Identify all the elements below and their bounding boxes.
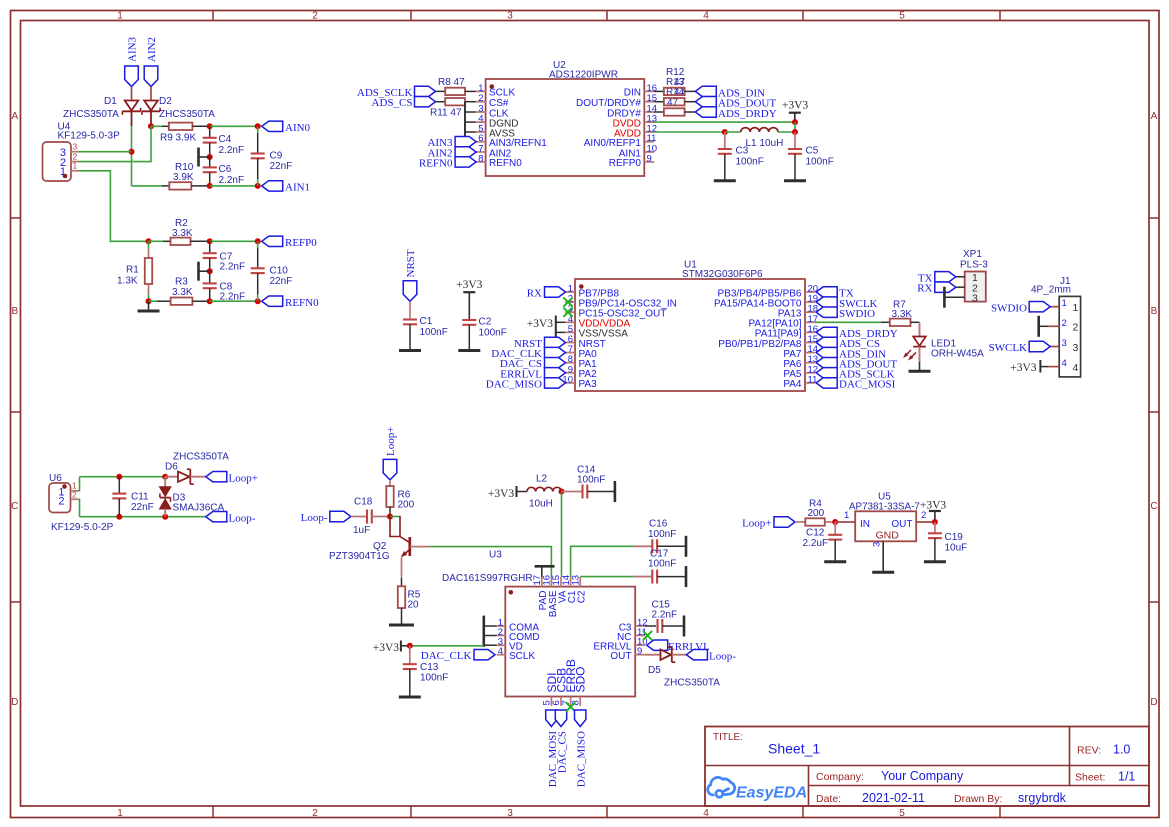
svg-text:AIN1: AIN1 — [285, 182, 310, 194]
junction L2 C14 — [559, 489, 565, 495]
junction Q2 base node — [387, 514, 393, 520]
wire loop top rail — [80, 476, 166, 478]
net flag Loop+ at D6 — [206, 472, 258, 485]
resistor R2 3.3K — [146, 218, 210, 245]
svg-text:3: 3 — [972, 293, 978, 305]
net flag ADS_CS — [372, 97, 436, 110]
net flag SWDIO at U1 — [816, 307, 875, 320]
svg-text:ZHCS350TA: ZHCS350TA — [173, 452, 229, 463]
no-connect U3 ERRB — [566, 702, 575, 711]
svg-text:4: 4 — [1073, 362, 1079, 374]
capacitor C5 100nF — [784, 132, 834, 181]
svg-text:C1: C1 — [420, 316, 433, 327]
svg-text:C13: C13 — [420, 662, 439, 673]
wire VA pin down — [561, 492, 563, 578]
svg-text:4P_2mm: 4P_2mm — [1031, 285, 1071, 296]
svg-text:B: B — [11, 306, 18, 317]
svg-text:C19: C19 — [945, 532, 964, 543]
svg-text:1: 1 — [1073, 302, 1079, 314]
capacitor C15 2.2nF — [645, 600, 684, 637]
op-amp U2 ADS1220IPWR body — [486, 60, 645, 176]
svg-text:C18: C18 — [354, 497, 373, 508]
svg-text:D: D — [1150, 697, 1157, 708]
net flag Loop+ at R4 — [742, 517, 795, 530]
svg-text:SWDIO: SWDIO — [991, 302, 1027, 314]
svg-text:Loop+: Loop+ — [229, 473, 258, 485]
net flag DAC_MISO at U1 — [486, 378, 566, 391]
net flag Loop- at U6 — [206, 512, 256, 525]
junction C19 — [932, 519, 938, 525]
net flag DAC_CS vertical — [555, 710, 568, 773]
svg-text:R1: R1 — [126, 265, 139, 276]
svg-text:1: 1 — [844, 510, 849, 521]
net flag Loop- at D5 — [686, 650, 736, 663]
resistor R10 3.9K — [132, 162, 210, 190]
ground at XP1 pin3 — [943, 287, 946, 308]
svg-text:200: 200 — [398, 500, 415, 511]
svg-text:Loop-: Loop- — [301, 512, 328, 524]
svg-text:1/1: 1/1 — [1118, 770, 1135, 784]
wire D2 anode down — [150, 112, 152, 126]
net flag ADS_DOUT — [695, 97, 776, 110]
diode D5 ZHCS350TA — [645, 647, 720, 688]
svg-text:DAC_CS: DAC_CS — [556, 731, 568, 773]
svg-text:20: 20 — [408, 600, 420, 611]
svg-text:11: 11 — [808, 374, 818, 385]
wire C1 pin to C16 — [571, 546, 634, 577]
ground at U3 PAD — [535, 566, 555, 577]
capacitor C19 10uF — [924, 522, 967, 562]
title block — [705, 727, 1149, 807]
net flag DAC_MISO vertical — [575, 710, 588, 787]
svg-text:Company:: Company: — [816, 771, 864, 783]
svg-text:2.2nF: 2.2nF — [652, 610, 678, 621]
svg-text:22nF: 22nF — [131, 502, 154, 513]
svg-text:C12: C12 — [806, 528, 825, 539]
dac U3 DAC161S997RGHR body — [442, 550, 635, 697]
junction C13 — [407, 643, 413, 649]
svg-text:100nF: 100nF — [648, 559, 676, 570]
svg-text:4: 4 — [703, 10, 709, 21]
svg-text:REFP0: REFP0 — [285, 237, 317, 249]
svg-text:ZHCS350TA: ZHCS350TA — [159, 109, 215, 120]
svg-text:SDO: SDO — [574, 666, 588, 692]
resistor R5 20 — [389, 586, 421, 625]
capacitor C18 1uF — [351, 497, 390, 537]
svg-text:2.2nF: 2.2nF — [220, 262, 246, 273]
net flag REFN0 at U2 — [419, 157, 476, 170]
svg-text:1: 1 — [117, 10, 123, 21]
svg-text:2: 2 — [312, 808, 318, 819]
EasyEDA logo — [708, 777, 807, 801]
svg-text:100nF: 100nF — [420, 327, 448, 338]
U1 right pins — [714, 284, 818, 391]
wire AIN1 row — [210, 185, 258, 187]
wire U4 pin1 — [79, 171, 149, 242]
net flag TX at U1 — [816, 287, 854, 300]
net flag AIN2 at U2 — [427, 147, 476, 160]
svg-text:REFN0: REFN0 — [285, 297, 319, 309]
svg-text:3: 3 — [507, 10, 513, 21]
svg-text:+3V3: +3V3 — [1010, 362, 1037, 374]
connector U4 KF129-5.0-3P — [43, 122, 121, 182]
net flag NRST at U1 — [514, 337, 566, 350]
svg-text:PA4: PA4 — [783, 379, 802, 390]
wire VSS pin5 — [556, 331, 565, 333]
net flag ERRLVL at U1 — [500, 368, 565, 381]
svg-text:GND: GND — [876, 530, 900, 542]
U3 left pins — [497, 618, 540, 663]
capacitor C14 100nF — [562, 465, 615, 503]
U3 right pins — [593, 618, 647, 663]
svg-text:2.2nF: 2.2nF — [219, 145, 245, 156]
net flag SWCLK at U1 — [816, 297, 877, 310]
svg-text:+3V3: +3V3 — [373, 642, 400, 654]
svg-text:D1: D1 — [104, 96, 117, 107]
net flag AIN1 — [262, 181, 310, 194]
svg-text:4: 4 — [1062, 358, 1067, 369]
svg-text:DAC_MOSI: DAC_MOSI — [839, 379, 896, 391]
svg-text:3: 3 — [507, 808, 513, 819]
svg-text:D2: D2 — [159, 96, 172, 107]
junction C3 — [722, 129, 728, 135]
wire Q2 collector to BASE pin — [430, 547, 552, 577]
svg-text:REV:: REV: — [1077, 745, 1101, 757]
net flag REFN0 — [262, 296, 319, 309]
svg-text:C2: C2 — [479, 317, 492, 328]
svg-text:REFP0: REFP0 — [609, 158, 642, 169]
capacitor C16 100nF — [648, 519, 686, 557]
svg-text:DAC_MISO: DAC_MISO — [486, 378, 542, 390]
net flag NRST vertical — [403, 249, 417, 301]
net flag RX at U1 — [527, 287, 566, 300]
svg-text:C9: C9 — [270, 151, 283, 162]
svg-text:RX: RX — [527, 288, 542, 300]
svg-text:KF129-5.0-2P: KF129-5.0-2P — [51, 522, 114, 533]
net flag RX at XP1 — [917, 282, 956, 295]
wire U4 pin2 — [79, 126, 152, 161]
net flag DAC_MOSI at U1 — [816, 378, 895, 391]
svg-text:SWDIO: SWDIO — [839, 308, 875, 320]
net flag ADS_DRDY at U1 — [816, 327, 898, 340]
svg-text:TITLE:: TITLE: — [713, 732, 743, 743]
capacitor C13 100nF — [399, 646, 449, 697]
svg-text:Date:: Date: — [816, 793, 841, 805]
svg-text:A: A — [1151, 111, 1158, 122]
net flag ADS_DIN at U1 — [816, 347, 886, 360]
U2 right pins — [576, 83, 657, 169]
U3 bottom pins — [542, 659, 588, 706]
svg-text:C5: C5 — [806, 146, 819, 157]
capacitor C11 22nF — [112, 477, 153, 517]
no-connect pin2 — [563, 298, 572, 307]
pin header XP1 PLS-3 — [945, 249, 988, 305]
svg-text:DAC_CLK: DAC_CLK — [421, 650, 472, 662]
svg-text:Drawn By:: Drawn By: — [954, 793, 1002, 805]
svg-text:100nF: 100nF — [577, 475, 605, 486]
wire +3V3 down — [794, 122, 796, 132]
net flag TX at XP1 — [918, 272, 956, 285]
power +3V3 at C13 — [373, 641, 410, 655]
power +3V3 at J1 pin4 — [1010, 360, 1048, 374]
resistor R6 200 — [386, 480, 414, 517]
net flag ERRLVL at U3 — [647, 640, 710, 653]
resistor R4 200 — [795, 499, 835, 526]
svg-text:AIN2: AIN2 — [146, 37, 158, 62]
U1 left pins — [562, 284, 676, 391]
svg-text:OUT: OUT — [891, 519, 912, 530]
U3 top pins — [532, 575, 588, 617]
svg-text:3: 3 — [872, 542, 883, 547]
net flag DAC_CS at U1 — [500, 358, 566, 371]
svg-text:Loop-: Loop- — [229, 513, 256, 525]
svg-text:C4: C4 — [219, 134, 232, 145]
svg-text:Sheet_1: Sheet_1 — [768, 741, 820, 757]
svg-text:1.0: 1.0 — [1113, 743, 1130, 757]
ground at J1 pin2 — [1039, 316, 1049, 337]
svg-text:D5: D5 — [648, 665, 661, 676]
resistor R7 3.3K — [881, 300, 920, 337]
power +3V3 at U1 pin4 — [527, 316, 565, 342]
wire AIN3 to D1 — [131, 87, 133, 101]
power +3V3 at L2 — [488, 486, 527, 500]
svg-text:5: 5 — [899, 10, 905, 21]
svg-text:C: C — [1150, 501, 1157, 512]
resistor R11 47 — [430, 98, 465, 119]
LED1 ORH-W45A — [903, 337, 984, 372]
svg-text:srgybrdk: srgybrdk — [1018, 791, 1067, 805]
svg-text:R11 47: R11 47 — [430, 108, 462, 119]
svg-text:RX: RX — [917, 283, 932, 295]
resistor R12 R13 R14 47 labels — [666, 67, 686, 109]
svg-text:R9 3.9K: R9 3.9K — [160, 133, 196, 144]
power +3V3 at C2 — [456, 279, 483, 320]
svg-text:SWCLK: SWCLK — [989, 342, 1028, 354]
svg-text:XP1: XP1 — [963, 249, 982, 260]
wire U4 pin3 — [79, 151, 132, 153]
ground below R1 R3 — [138, 301, 160, 311]
svg-text:2: 2 — [312, 10, 318, 21]
svg-text:+3V3: +3V3 — [456, 279, 483, 291]
svg-text:1: 1 — [1062, 298, 1067, 309]
svg-text:R3: R3 — [175, 277, 188, 288]
capacitor C8 2.2nF — [203, 271, 245, 302]
net flag AIN2 — [144, 37, 158, 87]
svg-text:Loop-: Loop- — [709, 651, 736, 663]
svg-text:Loop+: Loop+ — [385, 427, 397, 456]
svg-text:8: 8 — [478, 153, 483, 164]
ldo U5 AP7381-33SA-7 body — [844, 492, 935, 573]
net flag AIN3 — [125, 36, 139, 86]
no-connect pin3 — [563, 308, 572, 317]
svg-text:Your Company: Your Company — [881, 769, 964, 783]
no-connect U3 NC — [643, 631, 652, 640]
junction C6 bottom — [207, 183, 213, 189]
svg-text:3: 3 — [1073, 342, 1079, 354]
junction DVDD — [792, 119, 798, 125]
svg-text:ADS_DRDY: ADS_DRDY — [718, 108, 777, 120]
svg-text:ZHCS350TA: ZHCS350TA — [664, 678, 720, 689]
ground between C4 C6 — [199, 148, 213, 167]
svg-text:3: 3 — [1062, 338, 1067, 349]
capacitor C12 2.2uF — [803, 522, 847, 562]
wire DVDD to +3V3 — [654, 121, 795, 123]
junction REFN0 row — [207, 298, 213, 304]
capacitor C10 22nF — [251, 241, 293, 301]
diode D6 ZHCS350TA — [165, 452, 229, 485]
wire R4 to U5 IN — [835, 521, 855, 523]
capacitor C4 2.2nF — [203, 126, 244, 157]
wire +3V3 to VD — [410, 645, 484, 647]
svg-text:2021-02-11: 2021-02-11 — [862, 791, 925, 805]
svg-text:C11: C11 — [131, 492, 149, 503]
resistor R14 at DIN — [654, 88, 695, 95]
svg-text:C6: C6 — [219, 164, 232, 175]
net flag DAC_CLK at U1 — [491, 347, 565, 360]
svg-text:100nF: 100nF — [420, 673, 448, 684]
net flag ADS_CS at U1 — [816, 337, 880, 350]
wire AIN0 row — [210, 125, 258, 127]
svg-text:9: 9 — [647, 153, 652, 164]
junction C12 — [832, 519, 838, 525]
net flag AIN0 — [262, 121, 311, 134]
power +3V3 at U2 — [782, 100, 809, 123]
svg-text:2.2nF: 2.2nF — [219, 175, 245, 186]
svg-text:3: 3 — [73, 142, 78, 152]
wire U6 pin2 down — [79, 499, 80, 516]
transistor Q2 PZT3904T1G — [329, 516, 430, 587]
wire REFP0 row — [210, 240, 258, 242]
junction AIN0 row — [148, 123, 154, 129]
svg-text:L2: L2 — [536, 474, 548, 485]
wire AIN2 to D2 — [150, 87, 152, 101]
capacitor C9 22nF — [251, 126, 293, 186]
net flag ADS_DIN — [695, 86, 765, 99]
wire loop bottom rail — [80, 516, 206, 518]
resistor R1 1.3K — [117, 241, 152, 301]
svg-text:1uF: 1uF — [353, 525, 370, 536]
capacitor C1 100nF — [399, 301, 448, 350]
resistor R8 47 — [436, 77, 476, 95]
junction C4 top — [207, 123, 213, 129]
capacitor C3 100nF — [714, 132, 764, 181]
ground at U3 COMA COMD — [484, 616, 497, 647]
net flag SWCLK at J1 — [989, 341, 1051, 354]
svg-text:4: 4 — [498, 646, 503, 657]
svg-text:C: C — [11, 501, 18, 512]
svg-text:47: 47 — [667, 98, 679, 109]
svg-text:NRST: NRST — [405, 249, 417, 277]
wire R11 to CLK DGND AVSS — [461, 102, 476, 144]
svg-text:AIN3: AIN3 — [127, 36, 139, 62]
svg-text:D: D — [11, 697, 18, 708]
svg-text:22nF: 22nF — [270, 276, 293, 287]
svg-text:100nF: 100nF — [806, 157, 834, 168]
svg-text:C10: C10 — [270, 266, 289, 277]
svg-text:+3V3: +3V3 — [488, 488, 515, 500]
svg-text:22nF: 22nF — [270, 161, 293, 172]
svg-text:100nF: 100nF — [736, 157, 764, 168]
net flag REFP0 — [262, 236, 318, 249]
svg-text:10uH: 10uH — [529, 499, 553, 510]
svg-text:ORH-W45A: ORH-W45A — [931, 349, 984, 360]
svg-text:13: 13 — [570, 575, 581, 586]
svg-text:Sheet:: Sheet: — [1075, 772, 1105, 784]
U2 left pins — [476, 83, 547, 169]
diode D2 ZHCS350TA — [142, 96, 215, 120]
net flag ADS_DRDY — [695, 107, 776, 120]
inductor L2 10uH — [527, 474, 561, 510]
net flag ADS_SCLK at U1 — [816, 368, 894, 381]
svg-text:2: 2 — [1073, 322, 1079, 334]
connector J1 4P_2mm — [1031, 276, 1081, 377]
svg-text:U3: U3 — [489, 550, 502, 561]
connector U6 KF129-5.0-2P — [49, 473, 114, 533]
svg-text:D6: D6 — [165, 462, 178, 473]
svg-text:REFN0: REFN0 — [419, 157, 453, 169]
svg-text:PLS-3: PLS-3 — [960, 260, 988, 271]
svg-text:2.2uF: 2.2uF — [803, 538, 829, 549]
capacitor C6 2.2nF — [203, 157, 244, 186]
svg-text:1: 1 — [117, 808, 123, 819]
svg-text:+3V3: +3V3 — [782, 100, 809, 112]
resistor R9 3.9K — [151, 123, 210, 144]
wire U6 pin1 up — [79, 477, 80, 491]
svg-text:1.3K: 1.3K — [117, 276, 138, 287]
svg-text:A: A — [11, 111, 18, 122]
net flag Loop- at C18 — [301, 511, 351, 524]
resistor R13 at DOUT — [654, 98, 695, 105]
wire PA12 to R7 — [815, 321, 881, 323]
svg-text:OUT: OUT — [610, 651, 631, 662]
tvs diode D3 SMAJ36CA — [160, 477, 225, 517]
svg-text:9: 9 — [637, 646, 642, 657]
wire AVDD — [654, 131, 725, 133]
capacitor C7 2.2nF — [203, 241, 245, 272]
svg-text:+3V3: +3V3 — [527, 318, 554, 330]
capacitor C2 100nF — [458, 317, 507, 351]
net flag AIN3 at U2 — [427, 137, 476, 150]
resistor R12 at DRDY — [654, 108, 695, 115]
svg-text:4: 4 — [703, 808, 709, 819]
svg-text:DAC161S997RGHR: DAC161S997RGHR — [442, 573, 533, 584]
net flag ADS_DOUT at U1 — [816, 358, 897, 371]
net flag ADS_SCLK — [357, 86, 436, 99]
svg-text:100nF: 100nF — [479, 328, 507, 339]
svg-text:C3: C3 — [736, 146, 749, 157]
svg-text:C16: C16 — [649, 519, 668, 530]
svg-text:C2: C2 — [577, 590, 588, 603]
svg-text:L1 10uH: L1 10uH — [746, 138, 784, 149]
junction at U4 pin3 row — [129, 149, 135, 155]
svg-text:1: 1 — [73, 161, 78, 171]
svg-text:AIN0: AIN0 — [285, 122, 311, 134]
svg-text:ZHCS350TA: ZHCS350TA — [63, 109, 119, 120]
svg-text:2: 2 — [58, 495, 64, 507]
svg-text:R8 47: R8 47 — [438, 77, 465, 88]
svg-text:B: B — [1151, 306, 1158, 317]
svg-text:REFN0: REFN0 — [489, 158, 522, 169]
svg-text:100nF: 100nF — [648, 529, 676, 540]
net flag SWDIO at J1 — [991, 302, 1050, 315]
svg-text:10uF: 10uF — [945, 543, 968, 554]
svg-text:ADS_CS: ADS_CS — [372, 97, 413, 109]
svg-text:KF129-5.0-3P: KF129-5.0-3P — [58, 131, 121, 142]
inductor L1 10uH — [725, 128, 795, 149]
net flag DAC_CLK at U3 — [421, 650, 495, 663]
ground between C7 C8 — [199, 262, 213, 281]
svg-text:200: 200 — [808, 508, 825, 519]
